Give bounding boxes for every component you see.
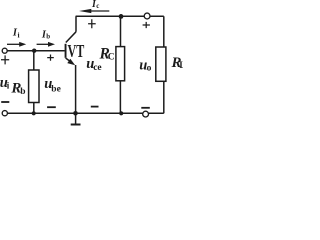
svg-text:C: C <box>108 52 115 62</box>
svg-text:ce: ce <box>93 63 101 73</box>
svg-text:o: o <box>147 64 152 74</box>
svg-text:b: b <box>46 33 50 41</box>
svg-text:i: i <box>18 31 20 40</box>
svg-text:VT: VT <box>68 41 85 61</box>
svg-text:be: be <box>51 84 61 94</box>
svg-text:b: b <box>20 87 25 97</box>
svg-text:L: L <box>179 60 183 70</box>
svg-text:c: c <box>96 2 99 10</box>
